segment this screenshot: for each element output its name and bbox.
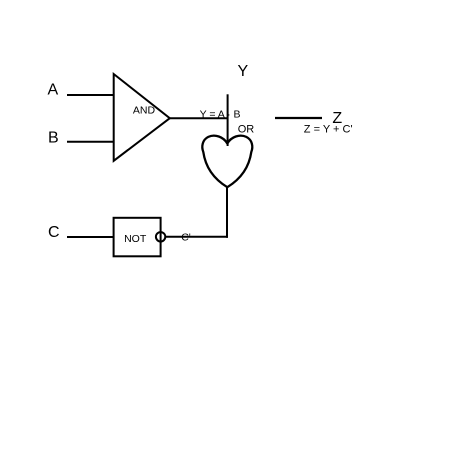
wire A input <box>67 94 114 96</box>
svg-text:B: B <box>48 130 59 147</box>
NOT gate inversion bubble <box>156 232 165 241</box>
svg-text:NOT: NOT <box>124 233 147 245</box>
svg-text:OR: OR <box>238 124 255 136</box>
wire Z output <box>275 117 322 119</box>
wire Y vertical into OR gate <box>227 94 229 146</box>
wire horizontal from NOT output to OR input <box>165 236 228 238</box>
OR gate U2 (heart shape) <box>202 136 252 188</box>
wire B input <box>67 141 114 143</box>
wire C input <box>67 236 114 238</box>
wire AND output to node Y <box>170 117 228 119</box>
svg-text:Z = Y + C': Z = Y + C' <box>304 124 353 136</box>
svg-text:Y = A · B: Y = A · B <box>200 108 241 120</box>
NOT gate U3 (box) <box>114 218 161 256</box>
svg-text:AND: AND <box>133 104 156 116</box>
svg-text:C': C' <box>181 231 191 243</box>
svg-text:Y: Y <box>238 63 249 80</box>
svg-text:C: C <box>48 224 60 241</box>
AND gate U1 (triangle) <box>114 74 170 161</box>
wire OR gate bottom down <box>226 187 228 238</box>
svg-text:A: A <box>48 82 59 99</box>
